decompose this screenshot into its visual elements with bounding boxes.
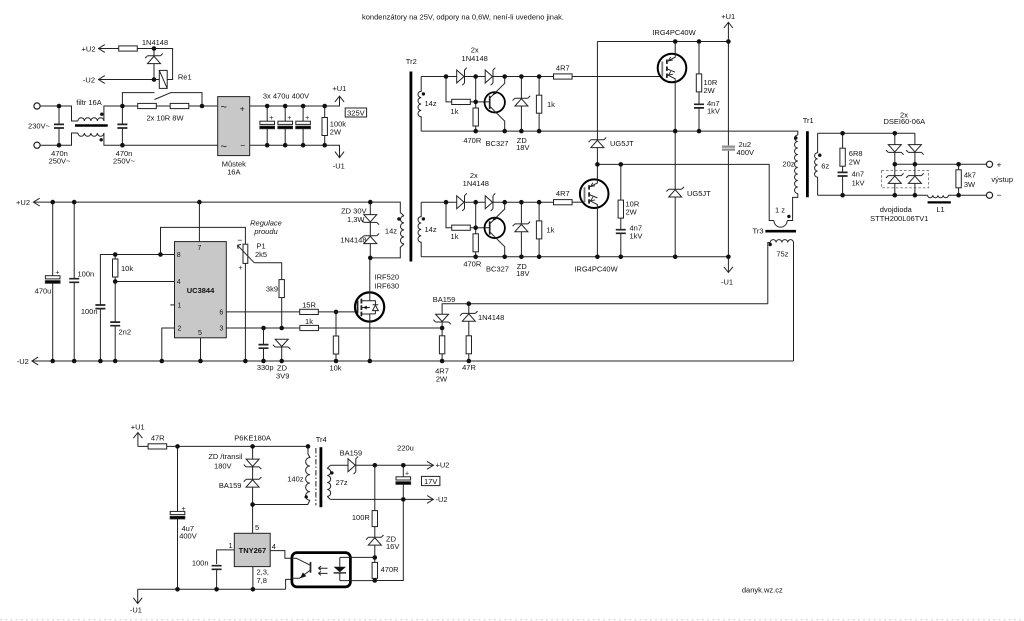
arrow +U1 aux: [133, 433, 142, 447]
resistor 10R 2W snubber upper: [696, 74, 701, 92]
switch blade Re1 contact: [155, 92, 172, 99]
svg-text:10k: 10k: [121, 264, 133, 273]
wire pin8 vref: [100, 255, 174, 362]
arrow +U1: [335, 96, 344, 102]
resistor 15R gate: [300, 309, 319, 314]
wire top rail +U1: [597, 41, 728, 43]
svg-text:Tr2: Tr2: [406, 57, 417, 66]
capacitor 470u 400V c: [296, 121, 311, 128]
relay bypass switch wire: [122, 93, 202, 106]
resistor 47R: [466, 336, 471, 354]
svg-text:100n: 100n: [78, 270, 95, 279]
svg-text:STTH200L06TV1: STTH200L06TV1: [870, 214, 928, 223]
svg-text:+U1: +U1: [332, 84, 346, 93]
svg-text:+U2: +U2: [82, 44, 96, 53]
transformer Tr2 upper 14z winding: [418, 77, 421, 132]
svg-text:1 z: 1 z: [775, 205, 785, 214]
svg-text:140z: 140z: [287, 475, 304, 484]
diode BA159 sense: [433, 314, 451, 324]
potentiometer P1 2k5: [243, 244, 248, 263]
svg-text:IRG4PC40W: IRG4PC40W: [574, 265, 618, 274]
wire diode junction lower: [475, 202, 477, 228]
resistor 1k gate-emitter lower: [536, 221, 541, 239]
terminal N input: [34, 142, 40, 148]
terminal output plus: [986, 161, 992, 167]
wire LED return: [375, 499, 404, 580]
wire -U2 ground rail: [32, 360, 794, 362]
arrow -U1: [335, 152, 344, 158]
svg-text:100n: 100n: [192, 559, 209, 568]
capacitor 4u7 400V: [170, 511, 185, 519]
arrow +U2 out: [427, 461, 433, 469]
node junctions relay: [152, 46, 157, 82]
svg-text:+: +: [240, 104, 245, 114]
svg-text:47R: 47R: [151, 433, 165, 442]
node junctions power: [595, 39, 797, 259]
svg-text:1: 1: [229, 541, 233, 550]
svg-text:+U2: +U2: [436, 461, 450, 470]
svg-text:+: +: [287, 115, 291, 122]
transformer Tr3 core: [765, 230, 796, 233]
transil P6KE180A ZD 180V: [244, 459, 262, 469]
transformer Tr1 6z winding: [815, 133, 818, 195]
wire 1z to Tr1: [787, 194, 798, 221]
svg-text:230V~: 230V~: [28, 121, 51, 130]
wire diode junction upper: [475, 77, 477, 102]
svg-text:+: +: [55, 269, 59, 276]
wire: [104, 106, 138, 121]
node junctions mains: [57, 104, 327, 148]
svg-text:+U1: +U1: [721, 12, 735, 21]
svg-text:-U2: -U2: [83, 75, 95, 84]
diode 1N4148 upper a: [457, 68, 467, 86]
svg-text:27z: 27z: [336, 478, 348, 487]
zener ZD 18V lower: [513, 222, 531, 232]
arrow -U1 aux: [133, 589, 142, 603]
resistor 4R7 2W burden: [439, 336, 444, 354]
svg-text:dvojdioda: dvojdioda: [880, 205, 913, 214]
svg-text:100R: 100R: [352, 513, 371, 522]
svg-text:14z: 14z: [425, 99, 437, 108]
dashed box dvojdioda: [882, 171, 929, 188]
resistor 10R 8W b: [170, 103, 189, 108]
wire Tr2 primary bottom: [370, 244, 404, 258]
svg-text:1N4148: 1N4148: [142, 38, 168, 47]
svg-text:470R: 470R: [463, 136, 482, 145]
capacitor 220u: [396, 477, 411, 485]
wire output minus rail: [818, 194, 987, 196]
wire pins 2378: [252, 567, 254, 590]
svg-text:1N4148: 1N4148: [463, 179, 489, 188]
svg-text:L1: L1: [936, 205, 944, 214]
svg-text:~: ~: [221, 102, 227, 114]
resistor 1k base lower: [446, 202, 452, 228]
svg-text:220u: 220u: [397, 443, 414, 452]
svg-text:1: 1: [178, 302, 182, 309]
node junctions sense: [440, 243, 772, 364]
arrow -U1: [724, 257, 733, 273]
svg-text:2x 10R 8W: 2x 10R 8W: [146, 114, 184, 123]
node junctions output: [818, 131, 961, 198]
wire aux feed: [167, 445, 308, 447]
svg-text:BC327: BC327: [486, 139, 509, 148]
svg-text:10k: 10k: [329, 363, 341, 372]
wire mid rail lower collector: [597, 164, 774, 220]
transformer Tr4 27z winding: [327, 465, 330, 499]
svg-text:UC3844: UC3844: [187, 286, 215, 295]
svg-text:325V: 325V: [347, 108, 365, 117]
resistor 1k base upper: [446, 77, 452, 102]
svg-text:TNY267: TNY267: [239, 546, 267, 555]
svg-text:výstup: výstup: [991, 175, 1013, 184]
diode 1N4148 lower b: [485, 193, 495, 211]
svg-text:3k9: 3k9: [266, 284, 278, 293]
resistor 470R lower: [473, 234, 478, 252]
capacitor 100n vcc: [69, 279, 79, 283]
svg-text:1N4148: 1N4148: [340, 236, 366, 245]
svg-text:Tr4: Tr4: [316, 435, 327, 444]
wire ground rail aux: [138, 579, 292, 589]
svg-text:2W: 2W: [849, 157, 861, 166]
IC TNY267: [234, 533, 270, 566]
wire: [137, 49, 172, 80]
svg-text:14z: 14z: [425, 225, 437, 234]
svg-text:proudu: proudu: [253, 227, 278, 236]
svg-text:20z: 20z: [782, 159, 794, 168]
resistor 47R aux: [148, 444, 167, 449]
transformer Tr1 20z winding: [795, 135, 798, 194]
svg-text:-U1: -U1: [333, 162, 345, 171]
svg-text:1k: 1k: [451, 107, 459, 116]
wire wiper to 3k9: [254, 263, 282, 280]
wire -U2 out: [330, 498, 433, 500]
IC UC3844: [175, 242, 227, 338]
wire: [99, 79, 160, 81]
diode 1N4148 clamp: [460, 311, 478, 321]
transformer Tr2 lower 14z winding: [418, 202, 421, 257]
svg-text:Tr3: Tr3: [753, 227, 764, 236]
capacitor 100n bypass: [212, 566, 222, 570]
resistor 3k9: [279, 280, 284, 298]
wire bridge + out: [250, 96, 340, 106]
diode BA159 rectifier aux: [330, 464, 348, 466]
transformer Tr4 140z winding: [306, 446, 310, 500]
svg-text:+: +: [997, 160, 1002, 170]
svg-text:BA159: BA159: [219, 481, 242, 490]
svg-text:-U2: -U2: [17, 357, 29, 366]
svg-text:6: 6: [219, 309, 223, 316]
svg-text:5: 5: [255, 523, 259, 532]
svg-text:1k: 1k: [547, 225, 555, 234]
transformer Tr2 primary 14z: [401, 216, 405, 244]
svg-text:15R: 15R: [302, 301, 316, 310]
zener ZD 16V: [366, 535, 384, 545]
svg-text:Re1: Re1: [178, 72, 192, 81]
svg-text:3x 470u 400V: 3x 470u 400V: [263, 91, 309, 100]
wire CT sense line: [442, 304, 768, 315]
MOSFET IRF520 IRF630: [355, 292, 384, 321]
svg-text:470R: 470R: [463, 260, 482, 269]
svg-text:470R: 470R: [381, 565, 400, 574]
svg-text:3: 3: [219, 326, 223, 333]
choke filter top winding: [78, 118, 104, 121]
svg-text:8: 8: [177, 252, 181, 259]
transformer Tr3 1z winding: [774, 221, 787, 228]
diode DSEI60-06A b: [906, 145, 924, 155]
wire bottom mains: [40, 133, 218, 145]
relay coil Re1: [159, 70, 167, 88]
diode 1N4148 upper b: [485, 68, 495, 86]
arrow -U2 relay: [99, 76, 105, 84]
pin1 stub: [170, 304, 174, 306]
svg-text:4k7: 4k7: [964, 170, 976, 179]
svg-text:IRF630: IRF630: [375, 281, 400, 290]
svg-text:2k5: 2k5: [255, 250, 267, 259]
capacitor 100n vref: [95, 305, 105, 309]
resistor 6R8 2W: [840, 148, 845, 166]
svg-text:2W: 2W: [704, 86, 716, 95]
svg-text:3V9: 3V9: [276, 371, 289, 380]
wire: [138, 445, 148, 447]
svg-text:3W: 3W: [964, 180, 976, 189]
zener ZD 3V9: [273, 339, 291, 349]
svg-text:17V: 17V: [424, 477, 437, 486]
resistor 10R 8W a: [138, 103, 157, 108]
wire drain to ZD30V node: [369, 258, 371, 293]
choke core: [75, 124, 108, 127]
wire: [156, 105, 217, 107]
svg-text:14z: 14z: [385, 226, 397, 235]
wire top mains: [40, 106, 78, 121]
transformer Tr3 75z winding: [768, 240, 794, 361]
svg-text:1kV: 1kV: [707, 106, 720, 115]
wire opto LED bottom: [350, 578, 374, 580]
svg-text:+U2: +U2: [16, 198, 30, 207]
box 325V: [345, 108, 366, 117]
wire output plus rail: [895, 163, 987, 165]
svg-text:2W: 2W: [330, 127, 342, 136]
arrow +U1: [724, 22, 733, 41]
svg-text:−: −: [997, 190, 1002, 200]
capacitor 470u 400V b: [278, 121, 293, 128]
svg-text:1kV: 1kV: [852, 179, 865, 188]
svg-text:7,8: 7,8: [257, 576, 267, 585]
svg-text:2n2: 2n2: [119, 327, 132, 336]
choke filter bottom winding: [78, 133, 104, 136]
zener ZD 18V upper: [513, 96, 531, 106]
capacitor 2u2 400V link: [727, 42, 729, 257]
svg-text:+: +: [238, 265, 242, 272]
svg-text:2W: 2W: [436, 375, 448, 384]
arrow +U2 rail: [33, 198, 39, 206]
wire emitter rail lower: [421, 256, 728, 258]
svg-text:kondenzátory na 25V, odpory na: kondenzátory na 25V, odpory na 0,6W, nen…: [362, 12, 564, 21]
capacitor 2n2 ct: [110, 322, 120, 326]
arrow -U2 rail: [32, 357, 38, 365]
svg-text:75z: 75z: [776, 250, 788, 259]
wire Tr2 primary top: [370, 202, 404, 216]
resistor 470R upper: [473, 108, 478, 126]
capacitor 470n input1: [54, 124, 64, 128]
wire pin2 to ground: [162, 328, 175, 361]
capacitor 470n input2: [117, 124, 127, 128]
svg-text:danyk.wz.cz: danyk.wz.cz: [742, 585, 783, 594]
wire source to ground: [369, 322, 371, 361]
transformer Tr1 core: [806, 131, 809, 197]
diode UG5JT lower: [674, 131, 676, 189]
svg-text:1k: 1k: [451, 232, 459, 241]
svg-text:330p: 330p: [257, 363, 274, 372]
svg-text:7: 7: [198, 245, 202, 252]
wire P1 bottom: [244, 263, 246, 361]
svg-text:Tr1: Tr1: [803, 116, 814, 125]
svg-text:4R7: 4R7: [556, 189, 570, 198]
terminal L input: [34, 103, 40, 109]
svg-text:ZD /transil: ZD /transil: [208, 452, 243, 461]
svg-text:4n7: 4n7: [852, 170, 865, 179]
svg-text:UG5JT: UG5JT: [610, 139, 634, 148]
resistor 4R7 gate upper: [554, 74, 573, 79]
svg-text:P6KE180A: P6KE180A: [234, 433, 271, 442]
diode STTH200L06TV1 b: [906, 173, 924, 183]
wire pin6 output: [226, 311, 299, 313]
resistor 10R 2W snubber lower: [618, 200, 623, 218]
svg-text:-U1: -U1: [130, 605, 142, 614]
wire pin4 rt-ct: [115, 282, 174, 362]
svg-text:180V: 180V: [214, 461, 232, 470]
wire opto LED top: [350, 556, 374, 558]
wire pin3 sense: [226, 327, 300, 329]
wire pin7 vcc: [198, 202, 200, 242]
bridge rectifier Mustek 16A: [218, 97, 250, 156]
svg-text:1N4148: 1N4148: [478, 313, 504, 322]
node junctions control: [50, 200, 400, 364]
transistor BC327 lower: [485, 218, 505, 238]
svg-text:+: +: [269, 115, 273, 122]
diode DSEI60-06A a: [886, 145, 904, 155]
wire +U2 rail: [33, 201, 370, 203]
wire clamp to Tr4: [253, 500, 310, 504]
box 17V: [422, 476, 440, 485]
svg-text:−: −: [240, 141, 245, 151]
svg-text:+: +: [405, 470, 409, 477]
resistor relay series: [119, 46, 138, 51]
diode 1N4148 lower a: [457, 193, 467, 211]
svg-text:-U1: -U1: [721, 277, 733, 286]
arrow -U2 out: [427, 496, 433, 504]
arrow +U2 relay feed: [99, 45, 105, 53]
capacitor 4n7 1kV snubber upper: [694, 104, 704, 108]
resistor 470R opto: [374, 558, 376, 563]
bottom artifact band: [0, 619, 1024, 621]
capacitor 330p: [259, 345, 269, 349]
transistor BC327 upper: [485, 92, 505, 112]
optocoupler: [292, 553, 351, 587]
resistor 4k7 3W: [956, 170, 961, 188]
transformer Tr4 core: [315, 448, 317, 505]
svg-text:4: 4: [272, 542, 276, 551]
wire emitter rail upper: [421, 131, 798, 135]
node junctions aux: [175, 444, 405, 591]
svg-text:1k: 1k: [305, 317, 313, 326]
node junctions drivers: [422, 74, 542, 259]
resistor 100k 2W bleeder: [322, 118, 327, 136]
wire lower driver top: [421, 201, 553, 203]
svg-text:2: 2: [178, 326, 182, 333]
diode 1N4148 relay flyback: [145, 54, 163, 64]
resistor 4R7 gate lower: [554, 200, 573, 205]
resistor 1k gate-emitter upper: [536, 95, 541, 113]
svg-text:4: 4: [177, 279, 181, 286]
capacitor 470u filter: [45, 276, 60, 284]
wire +U2 out: [356, 464, 434, 466]
svg-text:47R: 47R: [462, 363, 476, 372]
svg-text:100n: 100n: [81, 307, 98, 316]
svg-text:250V~: 250V~: [49, 157, 72, 166]
wire: [99, 48, 119, 50]
svg-text:250V~: 250V~: [113, 157, 136, 166]
svg-text:400V: 400V: [737, 148, 755, 157]
diode UG5JT upper: [596, 42, 598, 140]
capacitor 4n7 1kV snubber lower: [616, 230, 626, 234]
wire pin5: [252, 505, 254, 534]
wire pin8 to P1 top: [161, 227, 246, 254]
resistor 1k sense: [300, 325, 319, 330]
svg-text:~: ~: [221, 141, 227, 153]
resistor 10k pin6: [333, 336, 338, 354]
wire pin4: [270, 551, 292, 559]
resistor 100R: [374, 465, 376, 510]
svg-text:1k: 1k: [547, 100, 555, 109]
svg-text:filtr 16A: filtr 16A: [76, 98, 101, 107]
inductor L1: [928, 195, 949, 198]
svg-text:DSEI60-06A: DSEI60-06A: [883, 117, 925, 126]
svg-text:18V: 18V: [516, 143, 529, 152]
capacitor 4n7 1kV secondary: [838, 172, 848, 176]
svg-text:UG5JT: UG5JT: [687, 189, 711, 198]
svg-text:BC327: BC327: [486, 265, 509, 274]
IGBT IRG4PC40W upper: [658, 54, 687, 83]
IGBT IRG4PC40W lower: [580, 179, 609, 208]
zener ZD 30V 1,3W: [362, 215, 380, 225]
svg-text:470u: 470u: [35, 286, 52, 295]
diode STTH200L06TV1 a: [886, 173, 904, 183]
diode BA159 clamp aux: [244, 477, 262, 487]
svg-text:BA159: BA159: [433, 295, 456, 304]
svg-text:16A: 16A: [227, 168, 240, 177]
svg-text:IRG4PC40W: IRG4PC40W: [652, 28, 696, 37]
svg-text:1,3W: 1,3W: [347, 215, 365, 224]
svg-text:+: +: [182, 506, 186, 513]
diode 1N4148 reset: [362, 234, 380, 244]
svg-text:2W: 2W: [626, 208, 638, 217]
wire pin5 to ground: [200, 338, 202, 361]
svg-text:+U1: +U1: [131, 423, 145, 432]
wire bridge - out: [250, 145, 340, 158]
svg-text:400V: 400V: [179, 532, 197, 541]
capacitor 470u 400V a: [260, 121, 275, 128]
svg-text:−: −: [237, 235, 242, 245]
svg-text:-U2: -U2: [436, 495, 448, 504]
transformer Tr2 core: [409, 72, 412, 262]
svg-text:+: +: [305, 115, 309, 122]
svg-text:IRF520: IRF520: [375, 272, 400, 281]
terminal output minus: [986, 192, 992, 198]
wire pin1: [217, 550, 235, 564]
svg-text:BA159: BA159: [340, 449, 363, 458]
wire secondary top rail: [818, 132, 915, 134]
svg-text:1N4148: 1N4148: [462, 54, 488, 63]
